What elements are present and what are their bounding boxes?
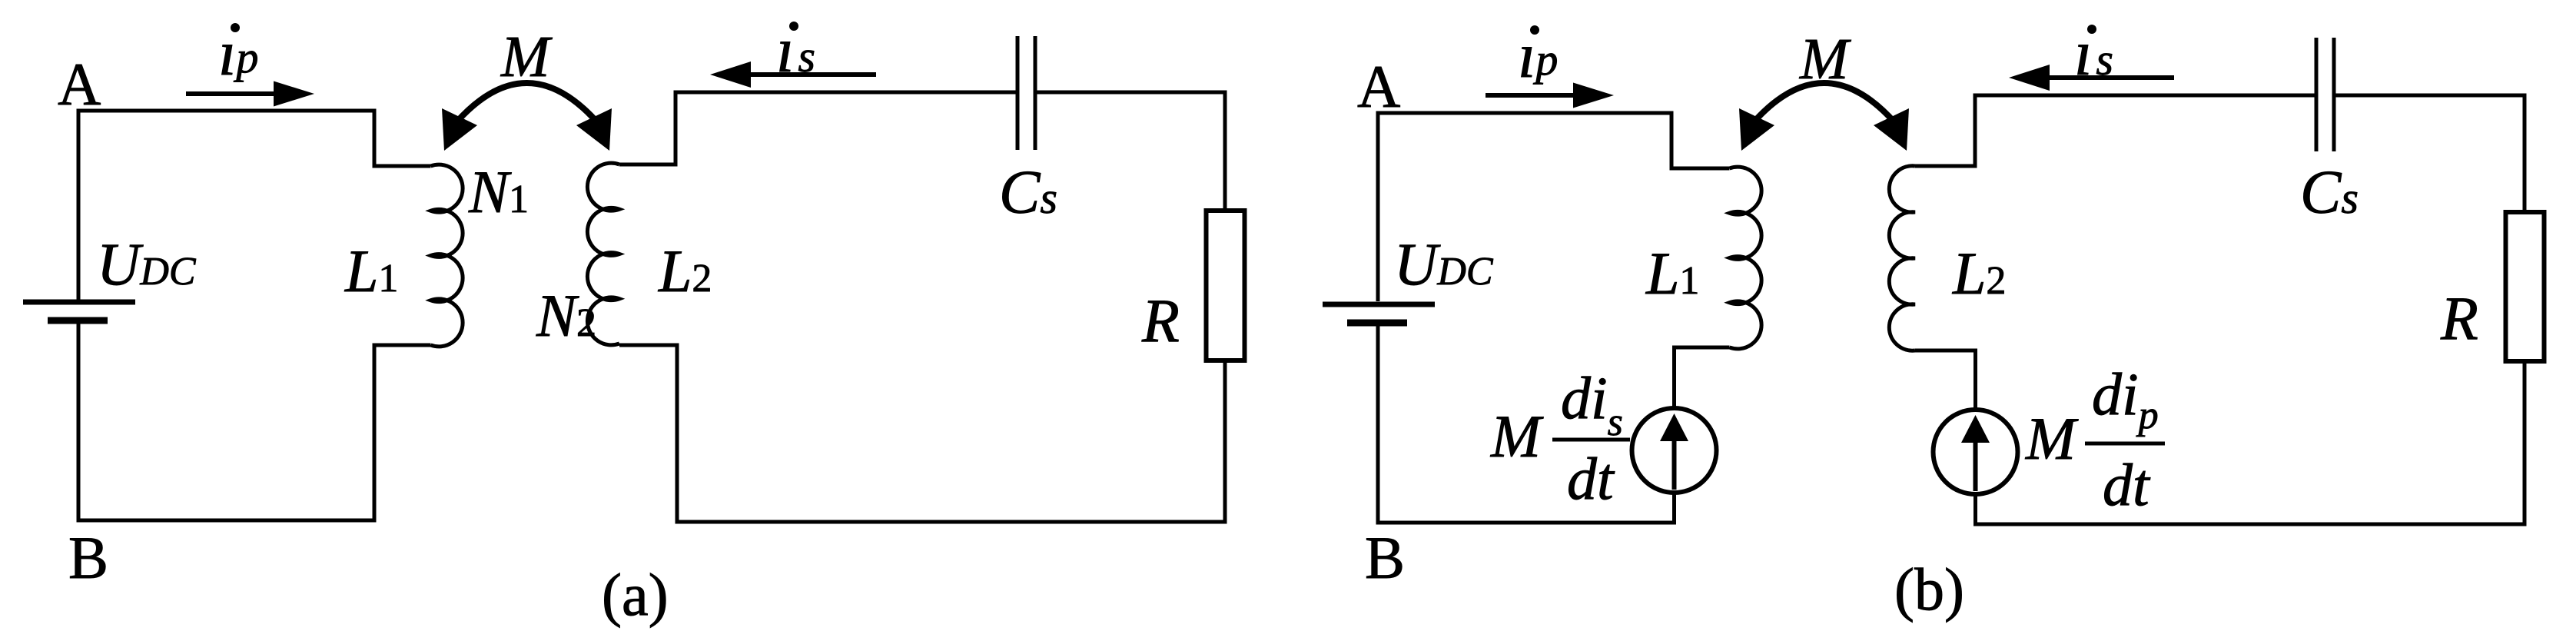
ip arrow (a) [186,91,278,96]
svg-text:A: A [1357,53,1400,120]
inductor L1 (b) [1730,167,1762,349]
battery UDC (b) long plate [1323,302,1435,307]
wire from Cs(b) to right corner down to resistor [2336,95,2525,212]
svg-text:dt: dt [1567,445,1615,512]
dependent current source M dis/dt circle [1632,408,1717,493]
svg-text:Cs: Cs [2300,159,2359,227]
svg-text:B: B [1365,524,1405,591]
inductor L2 [587,163,619,345]
svg-text:dis: dis [1561,364,1623,444]
svg-text:L2: L2 [658,237,712,304]
svg-text:dip: dip [2092,360,2159,437]
fraction bar dis/dt [1552,438,1630,442]
current source arrow [1672,440,1677,490]
svg-text:L1: L1 [344,237,398,304]
svg-text:(a): (a) [602,561,669,628]
svg-text:UDC: UDC [97,231,197,297]
wire L2 top stub and step up to secondary top wire [619,92,1016,164]
svg-text:M: M [1490,403,1544,470]
svg-text:M: M [500,25,553,89]
wire from Cs to right corner and down to resistor [1037,92,1226,211]
ip arrow (b) [1486,93,1578,98]
wire below current source, bottom wire, left vertical to battery [1378,325,1675,523]
battery UDC short plate [48,317,108,324]
wire L1 bottom stub, step down, bottom wire, left vertical up to battery [78,324,431,520]
svg-text:M: M [2025,405,2079,472]
svg-text:N1: N1 [468,158,529,225]
capacitor Cs (b) right plate [2332,38,2336,151]
svg-text:L1: L1 [1645,240,1699,307]
capacitor Cs right plate [1034,36,1037,150]
mutual coupling arc M (a) [456,83,598,123]
svg-text:L2: L2 [1952,240,2006,307]
wire top-left: node A corner, top wire, step down to L1 [78,111,431,300]
capacitor Cs left plate [1016,36,1020,150]
resistor R (b) [2506,212,2544,361]
wire from current source up to L2(b) bottom stub [1915,350,1976,410]
dependent current source M dip/dt circle [1934,410,2018,494]
svg-text:R: R [2440,285,2478,353]
wire resistor(b) bottom, bottom wire, up to current source [1976,361,2525,524]
wire resistor bottom, secondary bottom wire, up and L2 bottom stub [619,345,1225,522]
is arrow (a) [747,72,876,77]
is arrow (b) [2049,75,2174,80]
svg-text:N2: N2 [536,282,596,349]
resistor R [1207,211,1245,360]
current source (b right) arrow [1973,441,1978,491]
svg-text:UDC: UDC [1394,231,1494,297]
svg-text:dt: dt [2103,451,2151,518]
svg-text:Cs: Cs [999,159,1057,227]
battery UDC long plate [23,300,135,305]
mutual coupling arc M (b) [1753,83,1895,123]
battery UDC (b) short plate [1347,320,1407,327]
fraction bar dip/dt [2085,442,2165,446]
svg-text:M: M [1799,27,1851,91]
svg-text:A: A [58,51,101,118]
svg-text:(b): (b) [1894,556,1964,623]
inductor L2 (b) [1889,166,1915,350]
svg-text:B: B [68,524,108,591]
wire top-left: node A corner, top wire, step down to L1 [1378,113,1730,301]
wire L2(b) top stub, step up, top wire to capacitor [1915,95,2315,166]
capacitor Cs (b) left plate [2315,38,2319,151]
wire L1(b) bottom stub down to current source [1675,347,1730,408]
svg-text:R: R [1141,287,1180,355]
inductor L1 [431,164,463,347]
